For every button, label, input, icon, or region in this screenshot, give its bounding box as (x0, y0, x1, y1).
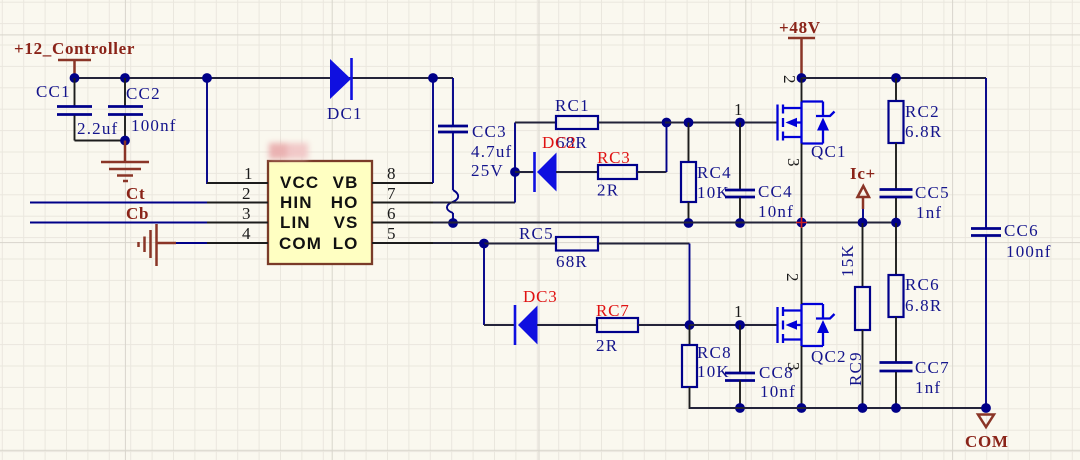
capacitor CC7 (880, 358, 950, 408)
pin stubs left (207, 183, 268, 243)
wire RC5 riser (689, 244, 691, 326)
svg-text:100nf: 100nf (131, 116, 177, 135)
svg-text:CC7: CC7 (915, 358, 950, 377)
svg-text:10nf: 10nf (758, 202, 794, 221)
capacitor CC3 (438, 122, 512, 190)
power port Ic+ (850, 164, 876, 223)
svg-text:HO: HO (331, 193, 359, 212)
node CC3/VS (448, 218, 458, 228)
capacitor CC4 (725, 123, 794, 224)
capacitor CC2 (108, 78, 177, 141)
wire +48 rail (802, 77, 987, 79)
node CC2 top (120, 73, 130, 83)
wire gate line QC1 (665, 122, 777, 124)
svg-text:DC2: DC2 (542, 133, 577, 152)
node CC4 top (735, 118, 745, 128)
node QC1 source / VS (797, 218, 807, 228)
svg-text:2: 2 (242, 184, 251, 203)
transistor QC2 (778, 273, 847, 371)
wire QC1 source (801, 144, 803, 224)
svg-text:COM: COM (965, 432, 1009, 451)
svg-text:Ic+: Ic+ (850, 164, 876, 183)
svg-text:6.8R: 6.8R (905, 296, 942, 315)
diode DC1 (327, 58, 363, 123)
resistor RC6 (889, 223, 943, 362)
resistor RC4 (681, 123, 732, 224)
resistor RC7 (596, 301, 689, 355)
wire QC2 drain (801, 223, 803, 304)
svg-text:10K: 10K (697, 183, 730, 202)
resistor RC1 (515, 96, 665, 152)
power port +48V (779, 18, 821, 78)
power port +12_Controller (14, 39, 135, 78)
svg-text:RC2: RC2 (905, 102, 940, 121)
svg-text:3: 3 (784, 158, 803, 167)
svg-text:RC1: RC1 (555, 96, 590, 115)
node ground junction (120, 136, 130, 146)
svg-text:1: 1 (244, 164, 253, 183)
svg-text:+12_Controller: +12_Controller (14, 39, 135, 58)
node RC9 bottom (858, 403, 868, 413)
svg-text:100nf: 100nf (1006, 242, 1052, 261)
wire Cb (30, 222, 207, 224)
node RC4 top (684, 118, 694, 128)
node CC8 top (735, 320, 745, 330)
node RC1/RC3 (662, 118, 672, 128)
svg-text:HIN: HIN (280, 193, 313, 212)
node CC5 bottom (891, 218, 901, 228)
node CC7 bottom (891, 403, 901, 413)
wire HO run (433, 202, 515, 204)
node RC4 bottom (684, 218, 694, 228)
svg-text:3: 3 (242, 204, 251, 223)
wire Ct (30, 202, 207, 204)
svg-text:8: 8 (387, 164, 396, 183)
wire HO riser (514, 123, 516, 203)
svg-text:QC1: QC1 (811, 142, 847, 161)
svg-text:RC3: RC3 (597, 148, 631, 167)
signal ground at COM pin (139, 224, 208, 266)
node RC7/RC8 (685, 320, 695, 330)
wire to RC9 (862, 223, 864, 287)
svg-text:15K: 15K (838, 244, 857, 277)
svg-text:10nf: 10nf (760, 382, 796, 401)
svg-text:RC7: RC7 (596, 301, 630, 320)
wire to VS (452, 213, 454, 223)
svg-text:25V: 25V (471, 161, 504, 180)
capacitor CC5 (880, 183, 950, 223)
wire gate line QC2 (690, 324, 778, 326)
diode DC2 (515, 133, 598, 192)
svg-text:COM: COM (279, 234, 322, 253)
svg-text:1nf: 1nf (915, 378, 941, 397)
resistor RC2 (889, 78, 943, 189)
error cross marker (796, 217, 807, 228)
svg-text:4.7uf: 4.7uf (471, 142, 512, 161)
wire QC1 drain (801, 78, 803, 102)
capacitor CC6 (971, 221, 1052, 408)
wire DC3 branch riser (483, 244, 485, 326)
node LO split (479, 239, 489, 249)
transistor QC1 (778, 75, 847, 167)
wire CC1 bottom to CC2 bottom (75, 140, 126, 142)
svg-text:1: 1 (734, 100, 743, 119)
svg-text:2: 2 (783, 273, 802, 282)
svg-text:6: 6 (387, 204, 396, 223)
wire VB riser (432, 78, 434, 183)
node CC8 bottom (735, 403, 745, 413)
wire CC3 branch top (452, 78, 454, 125)
svg-text:1nf: 1nf (916, 203, 942, 222)
svg-text:VS: VS (334, 213, 359, 232)
svg-text:4: 4 (242, 224, 251, 243)
svg-text:6.8R: 6.8R (905, 122, 942, 141)
wire hop over HO (447, 190, 458, 213)
svg-text:2R: 2R (597, 181, 619, 200)
svg-text:QC2: QC2 (811, 347, 847, 366)
svg-text:RC5: RC5 (519, 224, 554, 243)
svg-text:10K: 10K (697, 362, 730, 381)
wire CC6 riser (985, 78, 987, 228)
svg-text:CC3: CC3 (472, 122, 507, 141)
svg-text:Cb: Cb (126, 204, 149, 223)
svg-text:LIN: LIN (280, 213, 311, 232)
svg-text:CC5: CC5 (915, 183, 950, 202)
svg-text:2: 2 (780, 75, 799, 84)
svg-text:5: 5 (387, 224, 396, 243)
node RC2 top (891, 73, 901, 83)
svg-text:CC1: CC1 (36, 82, 71, 101)
node +48/QC1 drain (797, 73, 807, 83)
svg-text:DC1: DC1 (327, 104, 363, 123)
wire VS rail (433, 222, 896, 224)
svg-text:2R: 2R (596, 336, 618, 355)
node COM junction (981, 403, 991, 413)
svg-text:2.2uf: 2.2uf (77, 119, 118, 138)
capacitor CC1 (36, 78, 118, 141)
resistor RC9 (838, 244, 870, 408)
svg-text:RC8: RC8 (697, 343, 732, 362)
svg-text:RC9: RC9 (846, 351, 865, 386)
svg-text:LO: LO (333, 234, 359, 253)
node Ic+/VS (858, 218, 868, 228)
resistor RC8 (682, 325, 740, 408)
resistor RC3 (597, 123, 667, 200)
svg-text:7: 7 (387, 184, 396, 203)
svg-text:+48V: +48V (779, 18, 821, 37)
svg-text:CC2: CC2 (126, 84, 161, 103)
pin stubs right (372, 183, 433, 243)
wire COM rail (690, 407, 987, 409)
IC U1 body (268, 161, 372, 264)
node VB riser top (428, 73, 438, 83)
svg-text:CC6: CC6 (1004, 221, 1039, 240)
svg-text:RC6: RC6 (905, 275, 940, 294)
node HO split (510, 167, 520, 177)
redacted part number blur (269, 143, 308, 159)
wire VCC riser (207, 78, 238, 183)
svg-text:Ct: Ct (126, 184, 145, 203)
svg-text:CC4: CC4 (758, 182, 793, 201)
ground earth symbol (101, 141, 149, 182)
svg-text:3: 3 (784, 362, 803, 371)
node +12/CC1 (70, 73, 80, 83)
diode DC3 (484, 287, 597, 345)
svg-text:1: 1 (734, 302, 743, 321)
wire +12 rail (75, 77, 454, 79)
svg-text:68R: 68R (556, 252, 588, 271)
power port COM (965, 415, 1009, 452)
node CC4 bottom (735, 218, 745, 228)
wire LO run (433, 242, 484, 244)
wire QC2 source (801, 346, 803, 408)
svg-text:VB: VB (333, 173, 359, 192)
svg-text:DC3: DC3 (523, 287, 558, 306)
svg-text:RC4: RC4 (697, 163, 732, 182)
node VCC riser (202, 73, 212, 83)
capacitor CC8 (725, 325, 796, 408)
node QC2 source (797, 403, 807, 413)
svg-text:VCC: VCC (280, 173, 319, 192)
resistor RC5 (484, 224, 690, 271)
